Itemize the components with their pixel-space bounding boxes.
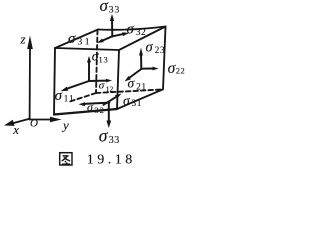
arrow sigma12 shaft — [89, 80, 107, 82]
svg-text:23: 23 — [155, 45, 166, 55]
svg-text:σ: σ — [146, 39, 154, 55]
svg-text:12: 12 — [106, 85, 114, 94]
arrowhead sigma31 bottom — [115, 94, 122, 99]
arrowhead sigma13 — [87, 56, 91, 63]
svg-text:11: 11 — [64, 94, 75, 104]
label sigma22 — [168, 60, 186, 77]
arrowhead sigma21 — [125, 76, 131, 82]
arrowhead sigma32 top — [122, 32, 129, 36]
arrow sigma32 top shaft — [113, 34, 124, 36]
svg-text:31: 31 — [78, 38, 93, 48]
label sigma23 — [146, 39, 166, 55]
arrowhead sigma12 — [106, 79, 112, 83]
arrow sigma31 top shaft — [102, 36, 113, 41]
arrow sigma33 bottom shaft — [108, 102, 110, 122]
wire: box back right edge — [163, 27, 166, 90]
label sigma12 — [99, 80, 114, 94]
svg-text:21: 21 — [136, 81, 147, 91]
wire: hidden back left vertical edge (dashed) — [96, 30, 98, 93]
svg-text:σ: σ — [68, 31, 76, 47]
label sigma31 top — [68, 31, 92, 48]
caption character tu (figure) drawn as strokes — [60, 153, 72, 165]
svg-text:O: O — [30, 117, 38, 129]
wire: box top left edge — [55, 30, 98, 49]
svg-text:σ: σ — [55, 88, 63, 104]
svg-text:σ: σ — [99, 80, 105, 92]
arrowhead sigma31 top — [97, 39, 104, 44]
wire: box front bottom edge — [54, 109, 117, 115]
label sigma21 — [128, 75, 147, 91]
svg-text:22: 22 — [176, 66, 186, 76]
arrowhead sigma33 bottom — [106, 121, 111, 129]
arrowhead sigma23 — [139, 48, 143, 56]
x axis arrowhead — [4, 120, 15, 126]
label sigma33 bottom — [99, 125, 120, 146]
arrow sigma11 shaft — [68, 81, 89, 88]
wire: box front right edge — [117, 50, 119, 109]
wire: box top right edge — [119, 27, 166, 51]
svg-text:z: z — [20, 31, 26, 46]
svg-text:33: 33 — [109, 6, 121, 16]
svg-text:33: 33 — [109, 135, 120, 146]
wire: hidden bottom back edge (dashed) — [96, 90, 162, 94]
wire: box bottom right edge — [117, 90, 163, 110]
z axis arrowhead — [27, 36, 33, 50]
arrowhead sigma33 top — [110, 14, 114, 21]
wire: box top back edge — [98, 27, 166, 30]
arrow sigma23 shaft — [140, 53, 142, 69]
svg-text:32: 32 — [94, 105, 105, 115]
svg-text:13: 13 — [99, 55, 109, 65]
svg-text:σ: σ — [127, 22, 135, 38]
arrow sigma13 shaft — [88, 61, 90, 81]
svg-text:σ: σ — [100, 0, 109, 15]
arrow sigma21 shaft — [129, 69, 141, 78]
label sigma32 bottom — [87, 100, 105, 115]
label sigma31 bottom — [123, 93, 142, 108]
arrow sigma22 shaft — [142, 68, 154, 70]
wire: box front left edge — [54, 48, 55, 115]
svg-text:32: 32 — [136, 28, 147, 38]
label sigma11 — [55, 88, 75, 104]
label sigma13 — [92, 48, 109, 64]
arrowhead sigma32 bottom — [79, 102, 86, 106]
arrow sigma33 top shaft — [111, 19, 113, 37]
svg-text:x: x — [12, 122, 19, 137]
svg-text:31: 31 — [132, 98, 143, 108]
x axis — [10, 119, 30, 124]
svg-text:y: y — [61, 118, 69, 133]
arrow sigma32 bottom shaft — [84, 103, 110, 104]
y axis arrowhead — [50, 117, 62, 123]
z axis — [29, 46, 31, 119]
label sigma33 top — [100, 0, 121, 16]
svg-text:19.18: 19.18 — [87, 152, 136, 167]
arrowhead sigma11 — [61, 87, 69, 92]
label sigma32 top — [127, 22, 147, 39]
y axis — [30, 119, 53, 121]
arrow sigma31 bottom shaft — [104, 97, 116, 105]
svg-text:σ: σ — [99, 125, 109, 145]
wire: hidden bottom left edge (dashed) — [70, 93, 96, 102]
arrowhead sigma22 — [153, 67, 159, 71]
wire: box front top edge — [55, 48, 119, 50]
